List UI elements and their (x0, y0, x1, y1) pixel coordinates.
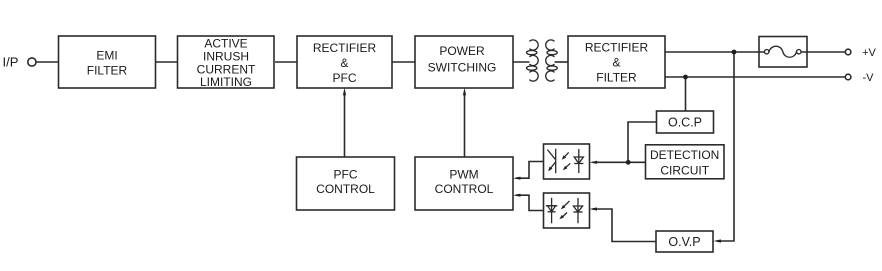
svg-text:O.C.P: O.C.P (668, 115, 702, 129)
svg-text:CIRCUIT: CIRCUIT (660, 164, 709, 178)
svg-text:LIMITING: LIMITING (200, 75, 252, 89)
svg-text:POWER: POWER (439, 44, 485, 58)
svg-text:PFC: PFC (333, 71, 357, 85)
svg-text:RECTIFIER: RECTIFIER (313, 41, 377, 55)
svg-text:FILTER: FILTER (596, 71, 637, 85)
svg-text:FILTER: FILTER (87, 63, 128, 77)
svg-text:-V: -V (863, 72, 875, 84)
svg-text:&: & (340, 56, 348, 70)
svg-text:CONTROL: CONTROL (435, 182, 494, 196)
svg-text:CONTROL: CONTROL (316, 182, 375, 196)
svg-text:I/P: I/P (3, 55, 19, 70)
svg-text:O.V.P: O.V.P (668, 235, 700, 249)
svg-text:EMI: EMI (96, 48, 117, 62)
svg-text:DETECTION: DETECTION (650, 148, 719, 162)
svg-text:+V: +V (862, 47, 876, 59)
svg-text:PFC: PFC (334, 168, 358, 182)
svg-text:PWM: PWM (449, 168, 478, 182)
svg-text:RECTIFIER: RECTIFIER (585, 40, 649, 54)
svg-text:&: & (612, 55, 620, 69)
svg-text:SWITCHING: SWITCHING (428, 60, 497, 74)
svg-text:ACTIVE: ACTIVE (204, 37, 247, 51)
